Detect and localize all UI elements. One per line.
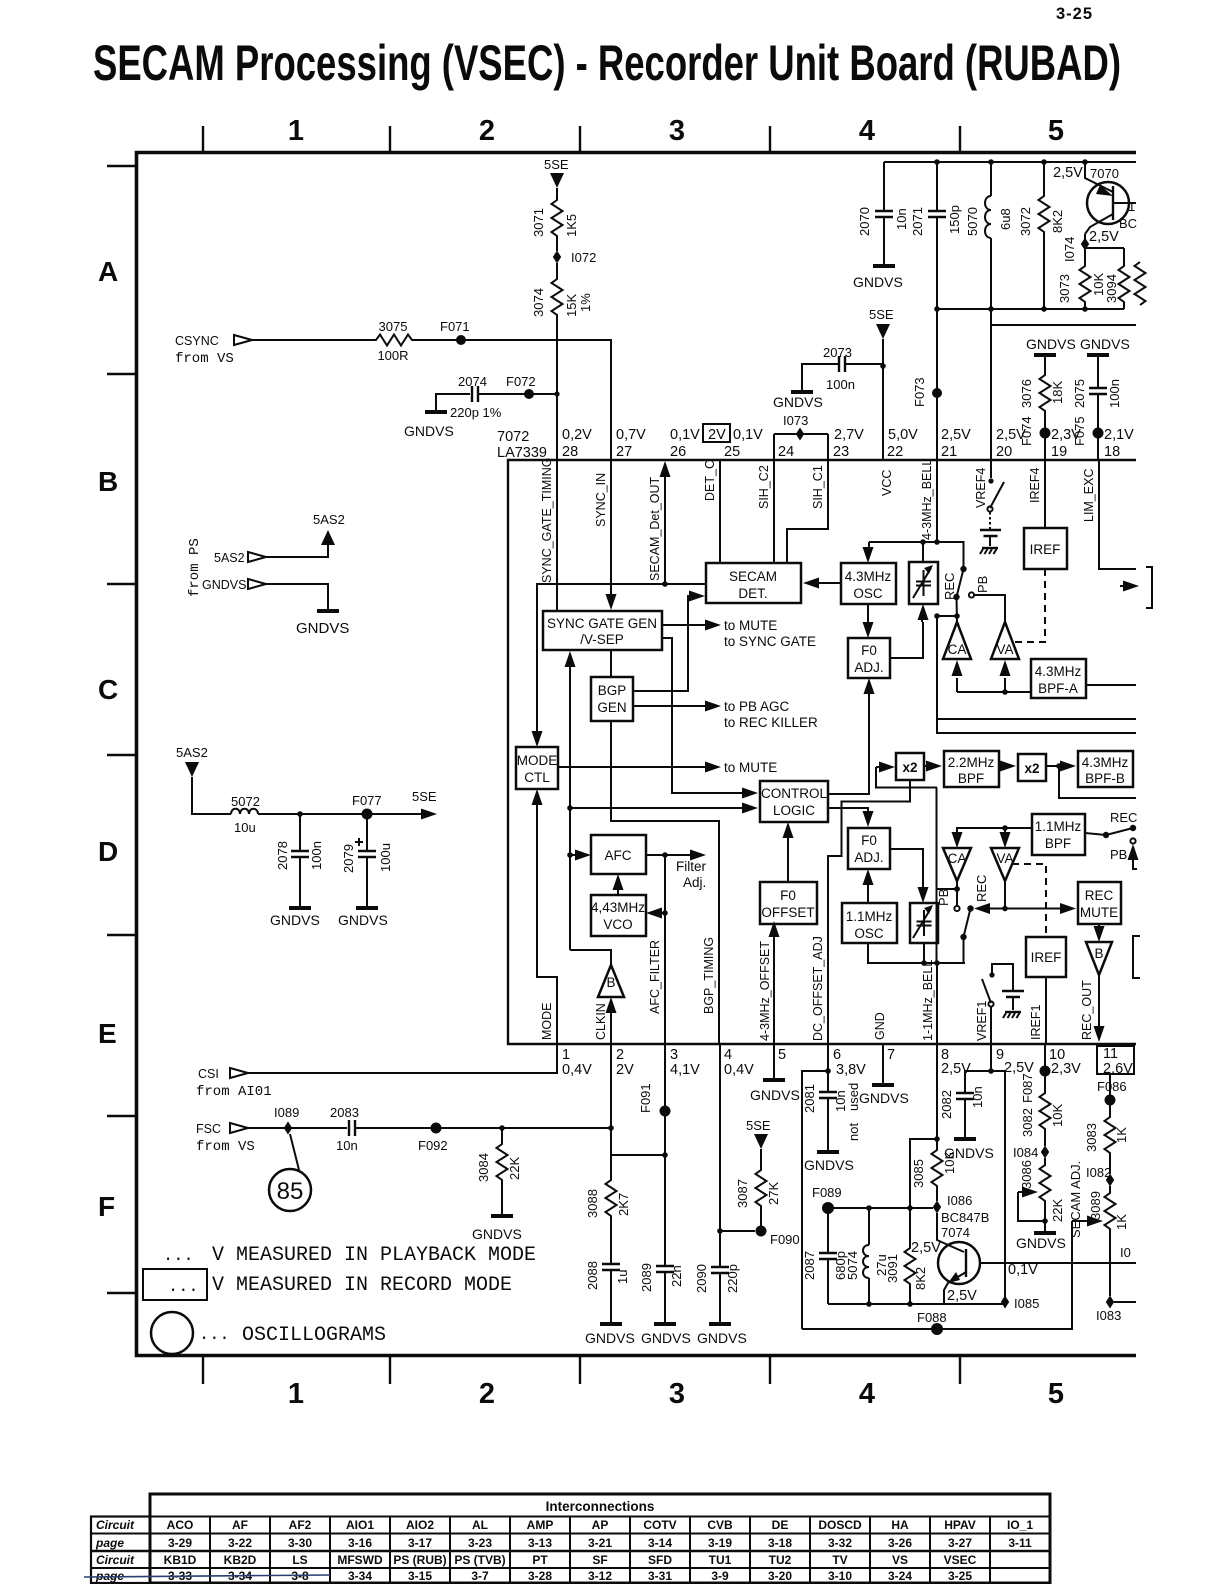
svg-text:2087: 2087 bbox=[802, 1251, 817, 1280]
svg-text:IO_1: IO_1 bbox=[1007, 1518, 1033, 1532]
pin name labels bottom (vertical) bbox=[540, 936, 1094, 1041]
svg-text:5SE: 5SE bbox=[869, 307, 894, 322]
svg-text:SFD: SFD bbox=[648, 1553, 672, 1567]
svg-text:Interconnections: Interconnections bbox=[546, 1499, 655, 1514]
op-amp block REC MUTE bbox=[1078, 882, 1121, 924]
wire to mute / sync gate bbox=[662, 624, 706, 626]
wire 4.3MHz osc to secam det bbox=[819, 582, 841, 584]
op-amp block SYNC GATE GEN bbox=[543, 611, 662, 650]
interconnections table bbox=[150, 1494, 1050, 1583]
wire rec switch top rail bbox=[869, 542, 964, 566]
svg-text:SYNC_GATE_TIMING: SYNC_GATE_TIMING bbox=[540, 458, 554, 583]
svg-text:3-20: 3-20 bbox=[768, 1569, 792, 1583]
svg-text:0,1V: 0,1V bbox=[670, 427, 700, 443]
svg-text:F0: F0 bbox=[861, 833, 877, 848]
svg-text:4: 4 bbox=[859, 1378, 875, 1410]
lower rail bbox=[937, 308, 1124, 310]
pin top numbers bbox=[562, 444, 1120, 460]
svg-text:ADJ.: ADJ. bbox=[854, 850, 883, 865]
node I072 bbox=[553, 251, 561, 264]
wire control logic to F0 adj 2 bbox=[828, 808, 868, 812]
svg-text:page: page bbox=[95, 1536, 124, 1550]
resistor 3072 8K2 bbox=[1043, 162, 1045, 309]
switch REC/PB second bbox=[967, 905, 973, 911]
wire clk into sync gate gen bbox=[569, 666, 571, 950]
svg-text:4,43MHz: 4,43MHz bbox=[591, 900, 645, 915]
capacitor 2089 22n bbox=[656, 1266, 674, 1272]
ground pin5 bbox=[773, 1044, 775, 1078]
wire 1.1MHz osc to f0 adj2 bbox=[867, 884, 869, 903]
node I086 bbox=[933, 1201, 941, 1214]
svg-text:KB1D: KB1D bbox=[164, 1553, 197, 1567]
svg-text:0,1V: 0,1V bbox=[1008, 1262, 1038, 1278]
wire pin8 down bbox=[936, 1044, 938, 1146]
node I085 bbox=[1001, 1296, 1009, 1309]
svg-text:Circuit: Circuit bbox=[96, 1553, 135, 1567]
svg-text:GNDVS: GNDVS bbox=[773, 394, 823, 410]
node F090 bbox=[756, 1226, 767, 1237]
svg-text:0,1V: 0,1V bbox=[733, 427, 763, 443]
wire bgp gen to secam det bbox=[633, 596, 692, 691]
node F091 bbox=[660, 1106, 671, 1117]
svg-text:10u: 10u bbox=[234, 820, 256, 835]
svg-text:I085: I085 bbox=[1014, 1296, 1039, 1311]
svg-text:to MUTE: to MUTE bbox=[724, 618, 777, 633]
svg-text:REC: REC bbox=[942, 573, 957, 600]
inductor 5070 6u8 bbox=[990, 162, 992, 309]
svg-text:7072: 7072 bbox=[497, 429, 529, 445]
svg-text:F092: F092 bbox=[418, 1138, 448, 1153]
border frame bbox=[137, 153, 1137, 1356]
svg-text:ACO: ACO bbox=[167, 1518, 194, 1532]
svg-text:2081: 2081 bbox=[802, 1084, 817, 1113]
wire sync gate gen to control logic bbox=[662, 638, 742, 793]
svg-text:0,4V: 0,4V bbox=[724, 1062, 754, 1078]
node F071 bbox=[456, 335, 466, 345]
wire x2 to bpf bbox=[924, 765, 928, 767]
resistor 3083 1K bbox=[1105, 1113, 1116, 1157]
capacitor 2081 10n not used bbox=[819, 1092, 837, 1098]
node I089 bbox=[284, 1122, 292, 1135]
svg-text:DET_C: DET_C bbox=[703, 460, 717, 501]
row letters bbox=[98, 256, 118, 1222]
svg-text:BPF-B: BPF-B bbox=[1085, 771, 1125, 786]
svg-text:TU2: TU2 bbox=[769, 1553, 792, 1567]
svg-text:2,5V: 2,5V bbox=[941, 427, 971, 443]
svg-text:E: E bbox=[98, 1018, 117, 1049]
capacitor 2083 10n bbox=[349, 1120, 355, 1136]
wire rec switch to bpf right bbox=[1085, 833, 1106, 835]
svg-text:0,2V: 0,2V bbox=[562, 427, 592, 443]
svg-text:220p: 220p bbox=[725, 1264, 740, 1293]
wire branch to right edge bbox=[1059, 766, 1136, 798]
svg-text:3071: 3071 bbox=[531, 208, 546, 237]
capacitor 2088 1u bbox=[602, 1264, 620, 1270]
wire f090 to pin4 line bbox=[720, 1230, 755, 1232]
column numbers bottom bbox=[288, 1378, 1064, 1410]
wire f0 adj2 to varicap2 bbox=[890, 849, 923, 888]
wiper 3086 bbox=[1018, 1192, 1045, 1221]
svg-text:F090: F090 bbox=[770, 1232, 800, 1247]
svg-text:...: ... bbox=[168, 1278, 199, 1297]
svg-text:100R: 100R bbox=[377, 348, 408, 363]
svg-text:3-30: 3-30 bbox=[288, 1536, 312, 1550]
svg-text:1u: 1u bbox=[615, 1270, 630, 1284]
svg-text:2,7V: 2,7V bbox=[834, 427, 864, 443]
switch VREF1 bbox=[990, 1007, 992, 1044]
svg-text:PS (RUB): PS (RUB) bbox=[393, 1553, 446, 1567]
wire to pb agc / rec killer bbox=[633, 705, 706, 707]
svg-text:F091: F091 bbox=[638, 1083, 653, 1113]
svg-text:GNDVS: GNDVS bbox=[296, 620, 349, 637]
svg-text:AF: AF bbox=[232, 1518, 248, 1532]
wire REC_OUT to pin11 bbox=[1098, 975, 1100, 1026]
svg-text:25: 25 bbox=[724, 444, 740, 460]
svg-text:1.1MHz: 1.1MHz bbox=[846, 909, 893, 924]
op-amp block AFC bbox=[591, 835, 646, 874]
svg-text:GNDVS: GNDVS bbox=[853, 274, 903, 290]
svg-text:6u8: 6u8 bbox=[998, 208, 1013, 230]
svg-text:3082: 3082 bbox=[1020, 1108, 1035, 1137]
svg-text:8K2: 8K2 bbox=[1050, 210, 1065, 233]
svg-text:5: 5 bbox=[778, 1047, 786, 1063]
svg-text:to PB AGC: to PB AGC bbox=[724, 699, 790, 714]
wire pin23 SIH_C1 bbox=[787, 460, 828, 563]
multiplier x2 second bbox=[1018, 754, 1046, 781]
svg-text:REC: REC bbox=[1110, 810, 1137, 825]
svg-text:9: 9 bbox=[996, 1047, 1004, 1063]
wire pin4 bgp timing down bbox=[719, 1044, 721, 1267]
svg-text:3073: 3073 bbox=[1057, 274, 1072, 303]
clipped resistor fragment bbox=[1135, 262, 1146, 305]
svg-text:3085: 3085 bbox=[911, 1159, 926, 1188]
wiper 3089 bbox=[1072, 1220, 1089, 1222]
svg-text:4,1V: 4,1V bbox=[670, 1062, 700, 1078]
wire F0 offset to control logic bbox=[787, 836, 789, 882]
wire x2 feed from bell line bbox=[876, 767, 937, 788]
svg-text:3-15: 3-15 bbox=[408, 1569, 432, 1583]
node I084 bbox=[1041, 1146, 1049, 1159]
svg-text:2: 2 bbox=[616, 1047, 624, 1063]
wire pin9 bbox=[990, 1044, 992, 1071]
svg-text:DC_OFFSET_ADJ: DC_OFFSET_ADJ bbox=[811, 936, 825, 1041]
svg-text:3-22: 3-22 bbox=[228, 1536, 252, 1550]
svg-text:VSEC: VSEC bbox=[944, 1553, 977, 1567]
svg-text:5074: 5074 bbox=[845, 1251, 860, 1280]
svg-text:GNDVS: GNDVS bbox=[697, 1330, 747, 1346]
svg-text:to MUTE: to MUTE bbox=[724, 760, 777, 775]
switch VREF4 bbox=[990, 461, 992, 478]
bottom ticks bbox=[203, 1357, 960, 1384]
svg-text:I083: I083 bbox=[1096, 1308, 1121, 1323]
svg-text:3075: 3075 bbox=[379, 319, 408, 334]
varicap trimmer 2 bbox=[910, 903, 938, 943]
column numbers top bbox=[288, 115, 1064, 147]
svg-text:24: 24 bbox=[778, 444, 794, 460]
resistor 3074 15K 1% bbox=[552, 275, 563, 319]
wire iref2 to pin10 bbox=[1045, 977, 1047, 1044]
op-amp block F0 ADJ second bbox=[848, 828, 890, 869]
emitter rail bbox=[828, 1303, 1005, 1305]
svg-text:2V: 2V bbox=[708, 427, 726, 443]
svg-text:GNDVS: GNDVS bbox=[1016, 1235, 1066, 1251]
svg-text:LOGIC: LOGIC bbox=[773, 803, 815, 818]
svg-text:IREF1: IREF1 bbox=[1029, 1005, 1043, 1040]
left ticks bbox=[107, 166, 135, 1293]
svg-text:F089: F089 bbox=[812, 1185, 842, 1200]
svg-text:CA: CA bbox=[948, 851, 967, 866]
svg-text:3: 3 bbox=[670, 1047, 678, 1063]
svg-text:...: ... bbox=[163, 1247, 194, 1266]
svg-text:BPF: BPF bbox=[1045, 836, 1071, 851]
svg-text:Filter: Filter bbox=[676, 859, 707, 874]
capacitor 2090 220p bbox=[711, 1267, 729, 1273]
svg-text:2,1V: 2,1V bbox=[1104, 427, 1134, 443]
svg-text:BGP: BGP bbox=[598, 683, 627, 698]
svg-text:AL: AL bbox=[472, 1518, 488, 1532]
op-amp block MODE CTL bbox=[516, 747, 558, 789]
wire bpf-a out bbox=[1086, 684, 1136, 686]
wire VA2 to rec mute bbox=[990, 881, 1062, 909]
svg-text:2: 2 bbox=[479, 1378, 495, 1410]
wire branch to 3091 column bbox=[910, 1139, 937, 1208]
svg-text:MFSWD: MFSWD bbox=[337, 1553, 383, 1567]
svg-text:LIM_EXC: LIM_EXC bbox=[1082, 469, 1096, 523]
svg-text:GNDVS: GNDVS bbox=[338, 912, 388, 928]
svg-text:100n: 100n bbox=[309, 841, 324, 870]
svg-text:ADJ.: ADJ. bbox=[854, 660, 883, 675]
svg-text:1-1MHz_BELL: 1-1MHz_BELL bbox=[921, 960, 935, 1041]
svg-text:0,4V: 0,4V bbox=[562, 1062, 592, 1078]
svg-text:20: 20 bbox=[996, 444, 1012, 460]
svg-text:OSC: OSC bbox=[853, 586, 883, 601]
resistor 3075 100R bbox=[372, 335, 416, 346]
node I073 bracket pins 24-23 bbox=[774, 434, 828, 460]
wire pin2 CLKIN into B bbox=[610, 1013, 612, 1044]
legend measured record bbox=[143, 1269, 207, 1300]
svg-text:22n: 22n bbox=[669, 1265, 684, 1287]
svg-text:1.1MHz: 1.1MHz bbox=[1035, 819, 1082, 834]
svg-text:AF2: AF2 bbox=[289, 1518, 312, 1532]
svg-text:x2: x2 bbox=[902, 760, 917, 775]
svg-text:TU1: TU1 bbox=[709, 1553, 732, 1567]
capacitor 2082 10n bbox=[956, 1093, 974, 1099]
svg-text:SECAM ADJ.: SECAM ADJ. bbox=[1068, 1161, 1083, 1238]
filter block 4.3MHz BPF-A bbox=[1031, 659, 1086, 698]
svg-text:22K: 22K bbox=[507, 1157, 522, 1180]
svg-text:OFFSET: OFFSET bbox=[761, 905, 814, 920]
svg-text:BC: BC bbox=[1119, 216, 1137, 231]
svg-text:VS: VS bbox=[892, 1553, 908, 1567]
svg-text:2089: 2089 bbox=[639, 1263, 654, 1292]
svg-text:PT: PT bbox=[532, 1553, 548, 1567]
wire F088 rail bbox=[802, 1221, 1072, 1329]
svg-text:MODE: MODE bbox=[540, 1003, 554, 1041]
svg-text:2,5V: 2,5V bbox=[1089, 229, 1119, 245]
op-amp block SECAM DET bbox=[706, 563, 801, 603]
wire fsc bbox=[248, 1127, 347, 1129]
svg-text:GNDVS: GNDVS bbox=[641, 1330, 691, 1346]
svg-text:I072: I072 bbox=[571, 250, 596, 265]
svg-text:7: 7 bbox=[887, 1047, 895, 1063]
svg-text:GND: GND bbox=[873, 1012, 887, 1040]
svg-text:5072: 5072 bbox=[231, 794, 260, 809]
svg-text:2,5V: 2,5V bbox=[947, 1288, 977, 1304]
svg-text:VA: VA bbox=[996, 642, 1013, 657]
svg-text:AIO1: AIO1 bbox=[346, 1518, 374, 1532]
ground rake 2 bbox=[1003, 1012, 1021, 1018]
svg-text:3072: 3072 bbox=[1018, 207, 1033, 236]
svg-text:7070: 7070 bbox=[1090, 166, 1119, 181]
svg-text:OSCILLOGRAMS: OSCILLOGRAMS bbox=[242, 1324, 386, 1347]
svg-text:10n: 10n bbox=[970, 1086, 985, 1108]
svg-text:I082: I082 bbox=[1086, 1165, 1111, 1180]
svg-text:REC_OUT: REC_OUT bbox=[1080, 980, 1094, 1040]
svg-text:3074: 3074 bbox=[531, 288, 546, 317]
wire pin28 bbox=[556, 319, 558, 460]
svg-text:/V-SEP: /V-SEP bbox=[580, 632, 624, 647]
svg-text:GNDVS: GNDVS bbox=[750, 1087, 800, 1103]
svg-text:F: F bbox=[98, 1191, 115, 1222]
op-amp block CONTROL LOGIC bbox=[760, 781, 828, 822]
capacitor 2075 100n bbox=[1097, 355, 1099, 461]
op-amp block 4,43MHz VCO bbox=[591, 895, 646, 936]
svg-text:2078: 2078 bbox=[275, 841, 290, 870]
resistor 3094 bbox=[1119, 262, 1130, 306]
node F074 bbox=[1040, 428, 1051, 439]
wire secam det out to pin26 bbox=[664, 474, 666, 584]
capacitor internal 2 bbox=[1002, 991, 1024, 997]
top supply rail bbox=[884, 161, 1136, 163]
wire rec mute to B2 bbox=[1098, 924, 1100, 927]
wire pin6 branch to F088 rail bbox=[802, 1071, 828, 1329]
wire bpf to x2 bbox=[999, 765, 1002, 767]
svg-text:10K: 10K bbox=[1050, 1104, 1065, 1127]
svg-text:CSI: CSI bbox=[198, 1067, 219, 1081]
svg-text:4-3MHz_OFFSET: 4-3MHz_OFFSET bbox=[758, 941, 772, 1041]
svg-text:4.3MHz: 4.3MHz bbox=[1082, 755, 1129, 770]
svg-text:5: 5 bbox=[1048, 115, 1064, 147]
trimmer 3089 1K bbox=[1109, 1186, 1111, 1189]
svg-text:TV: TV bbox=[832, 1553, 847, 1567]
trimmer 3086 22K bbox=[1044, 1158, 1046, 1161]
svg-text:to REC KILLER: to REC KILLER bbox=[724, 715, 818, 730]
svg-text:3-17: 3-17 bbox=[408, 1536, 432, 1550]
svg-text:CSYNC: CSYNC bbox=[175, 334, 219, 348]
pin bottom voltages bbox=[562, 1060, 1133, 1078]
node F072 bbox=[524, 389, 534, 399]
wire to pin2 bbox=[355, 1044, 611, 1128]
svg-text:3-10: 3-10 bbox=[828, 1569, 852, 1583]
svg-text:SF: SF bbox=[592, 1553, 607, 1567]
wire bbox=[252, 339, 372, 341]
svg-text:3-9: 3-9 bbox=[711, 1569, 729, 1583]
svg-text:VREF1: VREF1 bbox=[975, 1001, 989, 1041]
svg-text:AIO2: AIO2 bbox=[406, 1518, 434, 1532]
svg-text:Adj.: Adj. bbox=[683, 875, 706, 890]
svg-text:...: ... bbox=[199, 1326, 230, 1345]
wire afc filter line to pin3 bbox=[664, 855, 666, 1044]
svg-text:7074: 7074 bbox=[941, 1225, 970, 1240]
wire x2 to bpf-b bbox=[1046, 765, 1062, 767]
svg-text:21: 21 bbox=[941, 444, 957, 460]
svg-text:GNDVS: GNDVS bbox=[944, 1145, 994, 1161]
capacitor 2078 100n bbox=[299, 814, 301, 906]
svg-text:4-3MHz_BELL: 4-3MHz_BELL bbox=[920, 459, 934, 540]
svg-text:DET.: DET. bbox=[738, 586, 767, 601]
svg-text:PB: PB bbox=[936, 889, 951, 906]
svg-text:SIH_C2: SIH_C2 bbox=[757, 465, 771, 509]
wire AFC out bbox=[646, 854, 692, 856]
wire pb contact bbox=[969, 592, 974, 597]
svg-text:SYNC_IN: SYNC_IN bbox=[594, 473, 608, 527]
svg-text:CTL: CTL bbox=[524, 770, 550, 785]
node I083 bbox=[1106, 1296, 1114, 1309]
svg-text:LS: LS bbox=[292, 1553, 307, 1567]
svg-text:2,5V: 2,5V bbox=[941, 1061, 971, 1077]
svg-text:SECAM: SECAM bbox=[729, 569, 777, 584]
svg-text:DE: DE bbox=[772, 1518, 789, 1532]
svg-text:IREF: IREF bbox=[1031, 950, 1062, 965]
node F075 bbox=[1093, 428, 1104, 439]
wire BGP gen from sync gate gen bbox=[610, 650, 612, 677]
wire pb upward arrow clipped bbox=[1130, 838, 1135, 843]
svg-text:5AS2: 5AS2 bbox=[176, 745, 208, 760]
node I082 bbox=[1106, 1174, 1114, 1187]
wire osc2 varicap2 bottom rail bbox=[868, 943, 965, 1044]
svg-text:B: B bbox=[1094, 946, 1103, 961]
svg-text:15K: 15K bbox=[564, 294, 579, 317]
resistor 3091 8K2 bbox=[909, 1208, 911, 1304]
svg-text:2.2MHz: 2.2MHz bbox=[948, 755, 995, 770]
wire vco to afc bbox=[617, 888, 619, 895]
svg-text:KB2D: KB2D bbox=[224, 1553, 257, 1567]
svg-text:1K: 1K bbox=[1114, 1214, 1129, 1230]
svg-text:2,5V: 2,5V bbox=[1053, 165, 1083, 181]
svg-text:23: 23 bbox=[833, 444, 849, 460]
wire bgp gen to pin4 bbox=[611, 721, 719, 1044]
svg-text:3091: 3091 bbox=[885, 1254, 900, 1283]
svg-text:3-32: 3-32 bbox=[828, 1536, 852, 1550]
svg-text:BPF: BPF bbox=[958, 771, 984, 786]
amplifier CA2 triangle bbox=[943, 848, 971, 881]
wire pin25 DET_C bbox=[719, 460, 721, 563]
wire to 5SE out bbox=[258, 813, 421, 815]
svg-text:AP: AP bbox=[592, 1518, 609, 1532]
wire x2 bottom to pin6 bbox=[828, 781, 910, 1044]
wire F089 rail bbox=[828, 1207, 933, 1209]
svg-text:5070: 5070 bbox=[965, 207, 980, 236]
wire pin18 lim exc bbox=[1099, 460, 1136, 569]
wire secam det to mode ctl bbox=[537, 584, 706, 733]
op-amp U7072 LA7339 IC outline bbox=[508, 460, 1136, 1044]
svg-text:MUTE: MUTE bbox=[1080, 905, 1118, 920]
svg-text:3-31: 3-31 bbox=[648, 1569, 672, 1583]
svg-text:10n: 10n bbox=[336, 1138, 358, 1153]
wire mode ctl to mute bbox=[558, 766, 706, 768]
svg-text:IREF: IREF bbox=[1030, 542, 1061, 557]
svg-text:2K7: 2K7 bbox=[616, 1193, 631, 1216]
svg-text:2,3V: 2,3V bbox=[1051, 427, 1081, 443]
svg-text:3-11: 3-11 bbox=[1008, 1536, 1032, 1550]
svg-text:220p 1%: 220p 1% bbox=[450, 405, 502, 420]
svg-text:4.3MHz: 4.3MHz bbox=[1035, 664, 1082, 679]
resistor 3085 10K bbox=[932, 1146, 943, 1190]
svg-text:I089: I089 bbox=[274, 1105, 299, 1120]
amplifier VA2 triangle bbox=[991, 848, 1019, 881]
svg-text:3-19: 3-19 bbox=[708, 1536, 732, 1550]
svg-text:2: 2 bbox=[479, 115, 495, 147]
